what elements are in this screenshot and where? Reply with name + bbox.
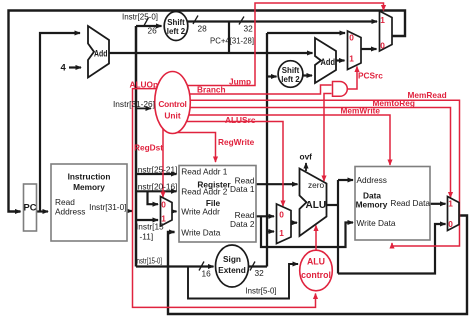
shift left 2 circle (jump) — [164, 12, 188, 41]
svg-text:PC: PC — [24, 203, 37, 213]
svg-text:Shift: Shift — [167, 18, 185, 27]
register file box — [179, 166, 256, 243]
svg-text:0: 0 — [380, 41, 385, 51]
svg-text:Read Addr 2: Read Addr 2 — [181, 187, 228, 197]
svg-text:Jump: Jump — [229, 77, 251, 87]
sign extend ellipse — [216, 245, 249, 287]
wire jump address (32) to jump mux input 1 — [187, 20, 377, 22]
wire PC+4[31-28] tap — [228, 22, 230, 54]
wire stub into branch shift left 2 — [267, 75, 277, 77]
wire new-PC wrap: jump mux output around top and left into PC — [9, 11, 406, 212]
adder Add (branch target) — [315, 38, 336, 83]
wire Instr[5-0] to ALU control — [188, 264, 298, 299]
svg-text:Instr[31-0]: Instr[31-0] — [89, 202, 126, 212]
control unit ellipse — [155, 72, 191, 134]
svg-text:32: 32 — [255, 268, 265, 278]
mux ALUSrc — [277, 204, 292, 244]
svg-text:PC+4[31-28]: PC+4[31-28] — [210, 36, 254, 46]
svg-text:Instr[15-0]: Instr[15-0] — [135, 256, 162, 266]
wire PC+4 from Add to second Add — [109, 52, 313, 54]
wire instruction bus vertical — [135, 26, 138, 267]
mux jump — [380, 11, 393, 51]
svg-text:1: 1 — [161, 214, 166, 224]
wire Instr[20-16] to read addr 2 — [136, 190, 177, 192]
svg-text:26: 26 — [148, 26, 158, 36]
svg-text:Memory: Memory — [73, 182, 105, 192]
svg-text:ALUOp: ALUOp — [130, 80, 159, 90]
svg-text:left 2: left 2 — [167, 27, 186, 36]
svg-text:0: 0 — [349, 33, 354, 43]
svg-text:16: 16 — [202, 269, 212, 279]
svg-text:Write Data: Write Data — [357, 218, 396, 228]
slash 32 jump — [239, 17, 244, 25]
slash 26 — [144, 18, 149, 27]
svg-text:ovf: ovf — [300, 152, 313, 162]
wire PCSrc (red) from AND gate to branch mux select — [348, 67, 357, 90]
wire regdst mux output to write addr — [172, 210, 177, 212]
wire PC out to instruction memory read address — [37, 210, 49, 212]
wire RegDst (red) to regdst mux select — [162, 128, 164, 197]
wire MemtoReg (red) to memtoreg mux select — [189, 108, 451, 198]
svg-text:Instr[25-21]: Instr[25-21] — [136, 164, 178, 174]
wire Instr[15-11] to regdst mux input 1 — [136, 219, 158, 221]
svg-text:Add: Add — [94, 49, 108, 59]
svg-text:Instr[31-26]: Instr[31-26] — [113, 99, 155, 109]
svg-text:0: 0 — [279, 210, 284, 220]
data memory box — [355, 167, 430, 241]
svg-text:Address: Address — [55, 207, 85, 217]
wire Jump (red) to jump mux select — [186, 3, 384, 86]
svg-text:Data 1: Data 1 — [230, 184, 255, 194]
wire Instr[31-26] to control unit — [136, 107, 151, 109]
wire read data 2 tap to data memory write data — [261, 216, 353, 247]
svg-text:0: 0 — [161, 200, 166, 210]
wire write-back from memtoreg mux to register write data — [168, 216, 467, 315]
wire sign extend to ALUSrc mux input 1 — [267, 230, 274, 232]
svg-text:Control: Control — [158, 99, 186, 109]
svg-text:1: 1 — [349, 54, 354, 64]
wire sign extend output — [249, 265, 268, 267]
wire Branch (red) to AND gate — [188, 85, 332, 94]
mux branch (PCSrc) — [348, 31, 362, 70]
svg-text:Read: Read — [55, 197, 75, 207]
svg-text:Instr[25-0]: Instr[25-0] — [122, 12, 158, 22]
wire Instr[31-0] from instruction memory — [127, 210, 132, 212]
svg-text:Shift: Shift — [282, 66, 300, 75]
wire branch mux output to jump mux input 0 — [361, 48, 377, 50]
svg-text:control: control — [301, 270, 331, 280]
wire ALUOp (red) to ALU control — [133, 89, 316, 308]
svg-text:Instr[15: Instr[15 — [136, 222, 164, 232]
svg-text:Sign: Sign — [223, 254, 241, 264]
adder Add (PC+4) — [88, 26, 109, 78]
instruction memory box — [51, 164, 127, 241]
svg-text:zero: zero — [308, 180, 325, 190]
svg-text:Memory: Memory — [356, 200, 388, 210]
svg-text:-11]: -11] — [140, 232, 154, 242]
svg-text:4: 4 — [61, 63, 67, 74]
ALU — [300, 169, 327, 237]
svg-text:1: 1 — [380, 15, 385, 25]
slash 28 — [193, 16, 198, 25]
slash 32 sign extend — [250, 262, 255, 271]
shift left 2 circle (branch) — [278, 61, 303, 88]
svg-text:Data 2: Data 2 — [230, 219, 255, 229]
wire ALU result to data memory address — [338, 179, 353, 181]
wire shift left 2 to second Add input — [303, 74, 313, 76]
wire long vertical sign-extend / PC+4 tap column — [266, 33, 268, 267]
svg-text:Instr[20-16]: Instr[20-16] — [136, 182, 178, 192]
wire ALU result bypass to memtoreg mux input 0 — [338, 224, 446, 274]
wire Instr[25-0] into shift left 2 — [136, 25, 162, 27]
svg-text:Instruction: Instruction — [68, 172, 111, 182]
svg-text:Write Addr: Write Addr — [181, 207, 220, 217]
wire zero (red) from ALU to AND gate — [324, 94, 332, 182]
wire ovf output — [305, 163, 307, 171]
mux MemtoReg — [448, 197, 460, 231]
wire read data 1 to ALU — [256, 183, 298, 185]
ALU control ellipse — [300, 250, 333, 291]
svg-text:1: 1 — [279, 228, 284, 238]
wire ALU result vertical — [337, 180, 339, 274]
svg-text:Branch: Branch — [197, 85, 226, 95]
svg-text:32: 32 — [244, 24, 254, 34]
mux RegDst — [161, 197, 173, 227]
svg-text:Instr[5-0]: Instr[5-0] — [246, 286, 277, 296]
svg-text:Write Data: Write Data — [181, 228, 220, 238]
svg-text:ALU: ALU — [307, 257, 325, 267]
svg-text:0: 0 — [448, 219, 453, 229]
wire Instr[15-0] to sign extend — [136, 265, 214, 267]
wire MemRead (red) — [189, 100, 460, 246]
svg-text:Add: Add — [321, 57, 336, 67]
svg-text:Read Addr 1: Read Addr 1 — [181, 166, 228, 176]
wire ALUSrc (red) to ALUSrc mux select — [187, 122, 283, 207]
PC register box — [24, 184, 37, 231]
slash 16 — [199, 262, 204, 271]
svg-text:left 2: left 2 — [281, 75, 300, 84]
wire Instr[25-21] to read addr 1 — [136, 173, 177, 175]
wire ALUSrc mux output to ALU — [291, 222, 297, 224]
svg-text:Address: Address — [357, 175, 387, 185]
wire read data 2 to ALUSrc mux input 0 — [256, 215, 274, 217]
wire second Add output to branch mux input 1 — [336, 59, 345, 61]
svg-text:1: 1 — [448, 199, 453, 209]
wire ALU control to ALU select (red) — [315, 226, 317, 251]
wire RegWrite (red) to register file — [176, 133, 216, 163]
svg-text:Unit: Unit — [164, 111, 180, 121]
svg-text:ALU: ALU — [306, 200, 327, 211]
svg-text:Read Data: Read Data — [390, 198, 430, 208]
wire MemWrite (red) to data memory — [188, 115, 390, 165]
svg-text:MemWrite: MemWrite — [341, 106, 381, 116]
wire data memory read data to memtoreg mux input 1 — [430, 203, 446, 205]
svg-text:Extend: Extend — [218, 265, 246, 275]
wire PC+4 to branch mux input 0 — [267, 32, 345, 34]
wire ALU result out — [327, 204, 339, 206]
svg-text:RegWrite: RegWrite — [218, 137, 255, 147]
AND gate — [333, 82, 348, 97]
svg-text:RegDst: RegDst — [134, 143, 163, 153]
wire PC value up to Add — [40, 33, 80, 211]
svg-text:ALUSrc: ALUSrc — [225, 115, 256, 125]
svg-text:PCSrc: PCSrc — [358, 71, 383, 81]
wire Instr[20-16] tap to regdst mux input 0 — [148, 191, 159, 204]
svg-text:28: 28 — [198, 24, 208, 34]
wire constant 4 into Add — [69, 66, 81, 68]
